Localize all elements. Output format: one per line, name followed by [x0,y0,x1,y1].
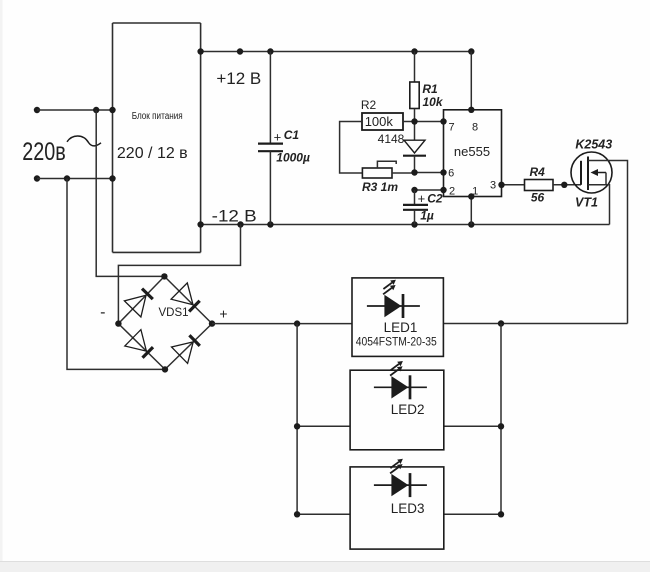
junction +12V rail C1 [267,48,273,54]
wire -12V rail [201,224,610,226]
svg-text:7: 7 [448,122,454,134]
junction pin 6 [440,169,446,175]
resistor R2 [362,113,415,130]
svg-text:3: 3 [490,180,496,192]
junction upper-AC at block [109,107,115,113]
wire LED1 right to drain [443,323,627,325]
bridge rectifier VDS1 diode D-left-bottom [118,324,165,370]
pin 7 wire [415,121,444,123]
junction -12V bridge branch [237,221,243,227]
svg-text:R2: R2 [361,98,377,112]
svg-text:Блок питания: Блок питания [132,111,183,122]
junction pin 1 [468,193,474,199]
wire -12V to bridge minus [118,225,240,324]
wire right LED bus [500,324,502,515]
node bridge left [115,320,121,326]
svg-text:C1: C1 [284,128,300,142]
svg-text:+: + [274,130,282,145]
timer IC ne555 [444,110,502,197]
svg-text:220в: 220в [22,138,66,166]
svg-text:1: 1 [472,186,478,198]
bridge rectifier VDS1 diode D-top-right [164,276,212,323]
junction pin 3 [498,182,504,188]
wire LED2 right [444,425,501,427]
svg-text:+: + [418,191,426,206]
pin 6 wire [415,172,444,174]
junction +12V rail pin8 [468,48,474,54]
transistor VT1 (MOSFET K2543) [571,152,612,225]
node: upper AC terminal [34,107,40,113]
junction pin 2 [440,187,446,193]
wire upper AC input [37,109,113,111]
resistor R1 [410,52,419,122]
svg-text:R4: R4 [530,165,546,179]
junction node R3/diode [411,169,417,175]
svg-text:1µ: 1µ [420,209,434,223]
svg-text:LED1: LED1 [384,320,418,335]
junction -12V pin1 [468,221,474,227]
wire LED2 left [297,425,350,427]
junction +12V at block [197,48,203,54]
junction right bus LED2 [498,423,504,429]
svg-text:ne555: ne555 [454,144,490,159]
svg-text:+: + [219,306,227,322]
svg-text:VDS1: VDS1 [158,307,188,319]
junction node C2 [411,187,417,193]
wire upper AC to bridge top [96,110,164,276]
junction pin 7 [440,118,446,124]
node: lower AC terminal [34,175,40,181]
bridge rectifier VDS1 diode D-left-top [118,276,164,323]
LED module LED3 box [350,467,444,549]
junction pin 8 [468,107,474,113]
svg-text:4148: 4148 [378,132,405,146]
LED1 diode symbol [367,280,420,318]
pin 8 wire [470,52,472,110]
wire lower AC input [37,178,113,180]
junction right bus top [498,320,504,326]
junction gate node [561,182,567,188]
wire LED3 right [444,513,501,515]
resistor R3 [362,161,414,178]
svg-text:8: 8 [472,122,478,134]
node bridge top [161,273,167,279]
junction left bus LED2 [294,423,300,429]
junction right bus LED3 [498,511,504,517]
svg-text:6: 6 [448,167,454,179]
svg-text:-12 В: -12 В [212,207,257,226]
svg-text:1000µ: 1000µ [276,151,310,165]
AC wave squiggle [67,136,101,146]
wire lower AC to bridge bottom [67,179,165,370]
power supply block "Блок питания" 220/12в [113,23,201,252]
svg-text:K2543: K2543 [575,138,612,152]
resistor R4 [525,180,582,191]
LED module LED1 box [352,278,443,357]
pin 1 wire [470,197,472,225]
junction left bus top [294,320,300,326]
junction -12V C1 [267,221,273,227]
wire LED3 left [297,513,350,515]
svg-text:2: 2 [449,186,455,198]
LED3 diode symbol [374,459,427,497]
svg-text:10k: 10k [422,95,443,109]
wire bridge plus to LED1 [212,323,352,325]
junction +12V rail R1 [411,48,417,54]
pin 3 wire [502,184,525,186]
diode 4148 [403,122,426,173]
wire +12V rail [201,51,472,53]
junction +12V rail a [237,48,243,54]
junction lower-AC at block [109,175,115,181]
wire R2-left to R3-left [340,122,363,174]
svg-text:VT1: VT1 [575,196,598,210]
svg-text:220 / 12 в: 220 / 12 в [117,145,188,162]
capacitor C1 [258,52,283,225]
junction -12V at block [197,221,203,227]
svg-text:4054FSTM-20-35: 4054FSTM-20-35 [356,336,437,348]
LED module LED2 box [350,370,444,450]
svg-text:-: - [100,304,105,321]
svg-text:LED3: LED3 [391,501,425,516]
wire left LED bus [296,324,298,515]
capacitor C2 [403,190,428,225]
junction lower-AC branch [64,175,70,181]
node bridge bottom [162,366,168,372]
node bridge right [209,320,215,326]
junction upper-AC branch [93,107,99,113]
bridge rectifier VDS1 diode D-bottom-right [165,324,212,370]
svg-text:+12 В: +12 В [216,69,261,88]
svg-text:R3 1m: R3 1m [362,180,398,194]
svg-text:R1: R1 [422,82,438,96]
svg-text:LED2: LED2 [391,402,425,417]
svg-text:100k: 100k [365,114,394,129]
LED2 diode symbol [374,361,427,399]
svg-text:C2: C2 [427,191,443,205]
junction left bus LED3 [294,511,300,517]
junction node R1/R2/diode [411,118,417,124]
junction -12V C2 [411,221,417,227]
svg-text:56: 56 [531,190,545,204]
pin 2 wire [415,189,444,191]
wire drain to LED bus [588,161,628,324]
